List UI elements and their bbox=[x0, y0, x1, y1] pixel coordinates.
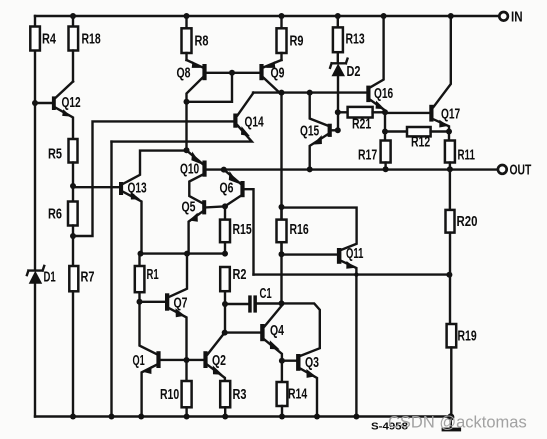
transistor Q8 bbox=[177, 60, 260, 150]
node Q15 emitter on output rail bbox=[307, 166, 313, 172]
svg-text:D1: D1 bbox=[44, 270, 56, 286]
node R15 bottom bbox=[222, 251, 228, 257]
node divider to R19 R20 bbox=[446, 272, 452, 278]
svg-text:Q9: Q9 bbox=[271, 66, 285, 82]
svg-text:Q11: Q11 bbox=[346, 246, 363, 262]
node Q1 Q2 base junction bbox=[184, 357, 190, 363]
node Q7 base tap bbox=[137, 299, 143, 305]
node R5 R6 junction bbox=[70, 183, 76, 189]
node feedback bottom bbox=[109, 414, 115, 420]
node R11 bottom on output rail bbox=[447, 166, 453, 172]
node Q3 emitter bottom bbox=[314, 414, 320, 420]
wire left rail with R4 stub bbox=[34, 16, 36, 417]
svg-text:R5: R5 bbox=[48, 146, 62, 162]
resistor R10 bbox=[160, 381, 192, 417]
svg-text:R10: R10 bbox=[160, 387, 179, 403]
resistor R4 bbox=[30, 27, 56, 51]
svg-text:CSDN @acktomas: CSDN @acktomas bbox=[388, 414, 527, 432]
wire bottom ground rail bbox=[35, 415, 451, 417]
svg-text:R7: R7 bbox=[81, 270, 95, 286]
svg-text:Q1: Q1 bbox=[133, 353, 145, 369]
svg-text:Q2: Q2 bbox=[212, 353, 226, 369]
resistor R5 bbox=[48, 139, 78, 186]
svg-text:R20: R20 bbox=[457, 214, 478, 230]
resistor R14 bbox=[277, 361, 308, 417]
node Q12 base junction bbox=[32, 100, 38, 106]
svg-text:Q12: Q12 bbox=[62, 95, 81, 111]
resistor R7 bbox=[69, 236, 94, 417]
node C1 left junction bbox=[222, 301, 228, 307]
svg-text:R15: R15 bbox=[233, 222, 252, 238]
svg-text:Q8: Q8 bbox=[177, 66, 191, 82]
wire feedback from R6 junction to Q14 base bbox=[73, 121, 233, 236]
wire divider row bbox=[254, 273, 450, 275]
transistor Q12 bbox=[52, 82, 81, 140]
wire top supply rail bbox=[35, 15, 499, 17]
svg-text:R16: R16 bbox=[290, 222, 309, 238]
resistor R12 bbox=[385, 127, 449, 150]
svg-text:C1: C1 bbox=[260, 286, 272, 302]
terminal OUT bbox=[498, 162, 532, 178]
svg-text:Q3: Q3 bbox=[305, 355, 319, 371]
transistor Q3 bbox=[282, 354, 319, 417]
node R7 bottom bbox=[70, 414, 76, 420]
diode D1 bbox=[27, 266, 56, 286]
terminal IN bbox=[499, 9, 522, 25]
wire Q12 base bbox=[35, 102, 52, 104]
svg-text:R3: R3 bbox=[233, 387, 247, 403]
svg-text:R8: R8 bbox=[195, 33, 209, 49]
transistor Q1 bbox=[133, 351, 204, 416]
wire base-collector tie of mirror bbox=[187, 73, 233, 102]
resistor R2 bbox=[220, 267, 246, 333]
resistor R20 bbox=[446, 169, 478, 274]
node R13 top bbox=[335, 13, 341, 19]
node R10 bottom bbox=[184, 414, 190, 420]
wire Q11 collector loop bbox=[282, 208, 357, 250]
resistor R15 bbox=[220, 206, 252, 253]
svg-text:R9: R9 bbox=[290, 33, 304, 49]
svg-text:R6: R6 bbox=[48, 206, 62, 222]
resistor R16 bbox=[277, 207, 309, 254]
wire C1 node link bbox=[282, 303, 320, 355]
node C1 right junction bbox=[279, 300, 285, 306]
svg-text:Q7: Q7 bbox=[174, 295, 188, 311]
node R3 bottom bbox=[222, 414, 228, 420]
svg-text:Q16: Q16 bbox=[374, 86, 393, 102]
capacitor C1 bbox=[225, 286, 282, 313]
node Q6 emitter tap on output rail bbox=[221, 167, 227, 173]
svg-text:Q5: Q5 bbox=[182, 199, 196, 215]
node R8 top bbox=[184, 13, 190, 19]
resistor R9 bbox=[277, 16, 304, 60]
svg-text:R13: R13 bbox=[346, 31, 365, 47]
wire Q13 base bbox=[73, 186, 119, 188]
transistor Q14 bbox=[112, 93, 264, 142]
svg-text:Q4: Q4 bbox=[270, 323, 284, 339]
node R9 top bbox=[279, 13, 285, 19]
node R12 left bbox=[382, 129, 388, 135]
node Q1 emitter bottom bbox=[138, 414, 144, 420]
ground bbox=[442, 413, 462, 431]
transistor Q11 bbox=[282, 246, 364, 417]
resistor R1 bbox=[135, 254, 159, 354]
node Q8 collector tie bbox=[184, 99, 190, 105]
node Q16 emitter R21 junction bbox=[382, 109, 388, 115]
node R6 R7 junction bbox=[70, 233, 76, 239]
node Q17 collector top bbox=[448, 13, 454, 19]
svg-text:D2: D2 bbox=[347, 64, 361, 80]
transistor Q16 bbox=[366, 16, 393, 112]
transistor Q15 bbox=[300, 93, 338, 170]
resistor R13 bbox=[333, 16, 365, 63]
svg-text:IN: IN bbox=[511, 9, 523, 25]
resistor R3 bbox=[220, 381, 246, 417]
node Q9 collector on row bbox=[279, 90, 285, 96]
node divider tap small bbox=[354, 272, 358, 276]
transistor Q7 bbox=[140, 254, 188, 381]
transistor Q17 bbox=[385, 16, 460, 141]
svg-text:R21: R21 bbox=[352, 116, 371, 132]
node R17 bottom on output rail bbox=[383, 166, 389, 172]
node Q8 Q9 base tie bbox=[229, 70, 235, 76]
wire node to R17 bbox=[384, 112, 386, 140]
node Q16 collector top bbox=[381, 13, 387, 19]
node Q4 emitter junction bbox=[279, 358, 285, 364]
transistor Q5 bbox=[182, 199, 225, 253]
node Q2 collector junction bbox=[222, 330, 228, 336]
svg-text:Q17: Q17 bbox=[441, 106, 460, 122]
diode D2 bbox=[330, 59, 360, 131]
svg-text:OUT: OUT bbox=[510, 162, 532, 178]
transistor Q13 bbox=[119, 151, 187, 254]
node R14 bottom bbox=[279, 414, 285, 420]
node top rail R18 bbox=[70, 13, 76, 19]
transistor Q4 bbox=[225, 306, 284, 361]
wire mirror output row bbox=[253, 91, 366, 93]
node Q7 collector junction bbox=[184, 251, 190, 257]
svg-text:R18: R18 bbox=[82, 31, 101, 47]
svg-text:Q10: Q10 bbox=[180, 162, 199, 178]
svg-text:Q14: Q14 bbox=[245, 114, 264, 130]
svg-text:R2: R2 bbox=[233, 267, 247, 283]
resistor R18 bbox=[69, 16, 101, 82]
node Q13 emitter junction bbox=[138, 251, 144, 257]
wire bias row bbox=[140, 252, 225, 254]
resistor R8 bbox=[182, 16, 209, 60]
resistor R6 bbox=[48, 186, 78, 236]
wire output rail bbox=[207, 168, 498, 170]
svg-text:R14: R14 bbox=[288, 386, 307, 402]
svg-text:R4: R4 bbox=[42, 31, 56, 47]
node R21 left bbox=[335, 109, 341, 115]
resistor R19 bbox=[447, 275, 477, 417]
transistor Q10 bbox=[180, 150, 207, 203]
transistor Q2 bbox=[203, 333, 226, 381]
svg-text:R1: R1 bbox=[147, 267, 159, 283]
svg-text:R11: R11 bbox=[458, 148, 475, 164]
transistor Q9 bbox=[259, 60, 284, 303]
svg-text:R17: R17 bbox=[358, 148, 377, 164]
resistor R21 bbox=[338, 107, 385, 132]
node R16 bottom bbox=[279, 251, 285, 257]
svg-text:Q13: Q13 bbox=[128, 180, 147, 196]
node Q15 base bbox=[335, 127, 341, 133]
node R16 top bbox=[279, 204, 285, 210]
node Q13 collector to mirror bbox=[184, 147, 190, 153]
svg-text:R19: R19 bbox=[458, 329, 477, 345]
resistor R17 bbox=[358, 141, 391, 170]
node R15 top bbox=[222, 203, 228, 209]
resistor R11 bbox=[445, 141, 475, 170]
node R12 right bbox=[446, 129, 452, 135]
svg-text:Q6: Q6 bbox=[220, 180, 234, 196]
svg-text:Q15: Q15 bbox=[300, 123, 319, 139]
wire feedback from Q14 emitter to bottom rail bbox=[110, 142, 112, 417]
transistor Q6 bbox=[220, 170, 254, 275]
node Q11 emitter bottom bbox=[353, 414, 359, 420]
node Q15 collector on row bbox=[307, 90, 313, 96]
svg-text:R12: R12 bbox=[411, 134, 430, 150]
